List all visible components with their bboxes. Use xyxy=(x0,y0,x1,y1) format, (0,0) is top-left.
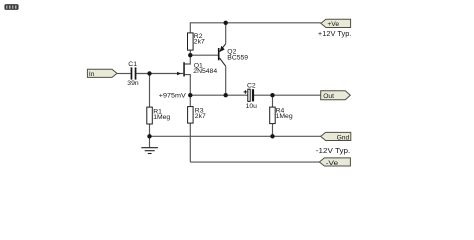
svg-text:C2: C2 xyxy=(247,82,256,89)
junction Q2 collector on output wire xyxy=(224,93,228,97)
junction node B (R2/Q1 drain/Q2 base) xyxy=(188,53,192,57)
terminal In xyxy=(87,69,117,77)
terminal +Ve xyxy=(321,19,351,27)
junction R4 top on output wire xyxy=(270,93,274,97)
resistor R1 xyxy=(147,107,153,124)
junction R4 bottom on ground rail xyxy=(270,134,274,138)
junction R1/ground on ground rail xyxy=(147,134,151,138)
wire: R4 bottom to ground rail xyxy=(272,124,274,137)
svg-text:1Meg: 1Meg xyxy=(153,114,170,121)
resistor R2 xyxy=(188,33,194,50)
svg-text:+12V Typ.: +12V Typ. xyxy=(318,31,352,38)
terminal Out xyxy=(321,91,351,100)
transistor Q1 JFET 2N5484 xyxy=(177,62,185,76)
wire: Q1 source down to output node xyxy=(185,75,191,96)
junction output node at Q1 source xyxy=(188,93,192,97)
svg-text:2k7: 2k7 xyxy=(195,113,206,120)
svg-text:39n: 39n xyxy=(127,80,139,87)
terminal Gnd xyxy=(321,132,351,140)
watermark badge xyxy=(4,4,18,10)
svg-text:2k7: 2k7 xyxy=(194,39,205,46)
resistor R4 xyxy=(270,107,276,124)
svg-text:2N5484: 2N5484 xyxy=(193,68,217,75)
wire: ground stub xyxy=(149,136,151,147)
ground symbol xyxy=(141,148,158,154)
wire: output node to C2 xyxy=(190,94,248,96)
junction Q2 emitter on +Ve rail xyxy=(224,21,228,25)
wire: C2 to Out terminal xyxy=(254,94,321,96)
svg-text:+Ve: +Ve xyxy=(327,21,339,28)
terminal -Ve xyxy=(319,158,350,166)
wire: -Ve rail to -Ve terminal xyxy=(190,161,319,163)
wire: C1 to Q1 gate xyxy=(136,73,183,75)
svg-text:1Meg: 1Meg xyxy=(276,113,293,120)
transistor Q2 PNP BC559 xyxy=(218,44,226,66)
wire: +Ve top rail with drop to R2 xyxy=(190,23,321,33)
resistor R3 xyxy=(188,107,194,124)
wire: Q2 emitter vertical to +Ve rail xyxy=(225,23,227,44)
wire: R3 top to output node xyxy=(189,95,191,106)
wire: In terminal to C1 xyxy=(117,73,131,75)
wire: Q2 collector vertical to output node xyxy=(225,66,227,95)
svg-text:Out: Out xyxy=(323,93,334,100)
wire: input node down to R1 xyxy=(149,74,151,108)
wire: Q1 drain to node B xyxy=(185,55,191,64)
svg-text:BC559: BC559 xyxy=(227,54,248,61)
svg-text:-Ve: -Ve xyxy=(326,160,339,167)
wire: ground rail to Gnd terminal xyxy=(150,135,321,137)
wire: R1 bottom to ground rail xyxy=(149,124,151,136)
wire: node B to Q2 base xyxy=(190,54,218,56)
capacitor C1 xyxy=(131,67,133,79)
svg-text:10u: 10u xyxy=(246,103,258,110)
svg-text:In: In xyxy=(89,71,95,78)
capacitor C2 polarized xyxy=(244,89,254,101)
svg-text:C1: C1 xyxy=(128,61,137,68)
wire: R2 bottom to node B xyxy=(189,50,191,55)
svg-text:-12V Typ.: -12V Typ. xyxy=(316,148,351,155)
junction input node xyxy=(147,71,151,75)
svg-text:+975mV: +975mV xyxy=(159,93,186,100)
wire: R4 top to output wire xyxy=(272,95,274,107)
svg-text:Gnd: Gnd xyxy=(337,135,350,142)
wire: R3 bottom down to -Ve rail xyxy=(189,123,191,162)
